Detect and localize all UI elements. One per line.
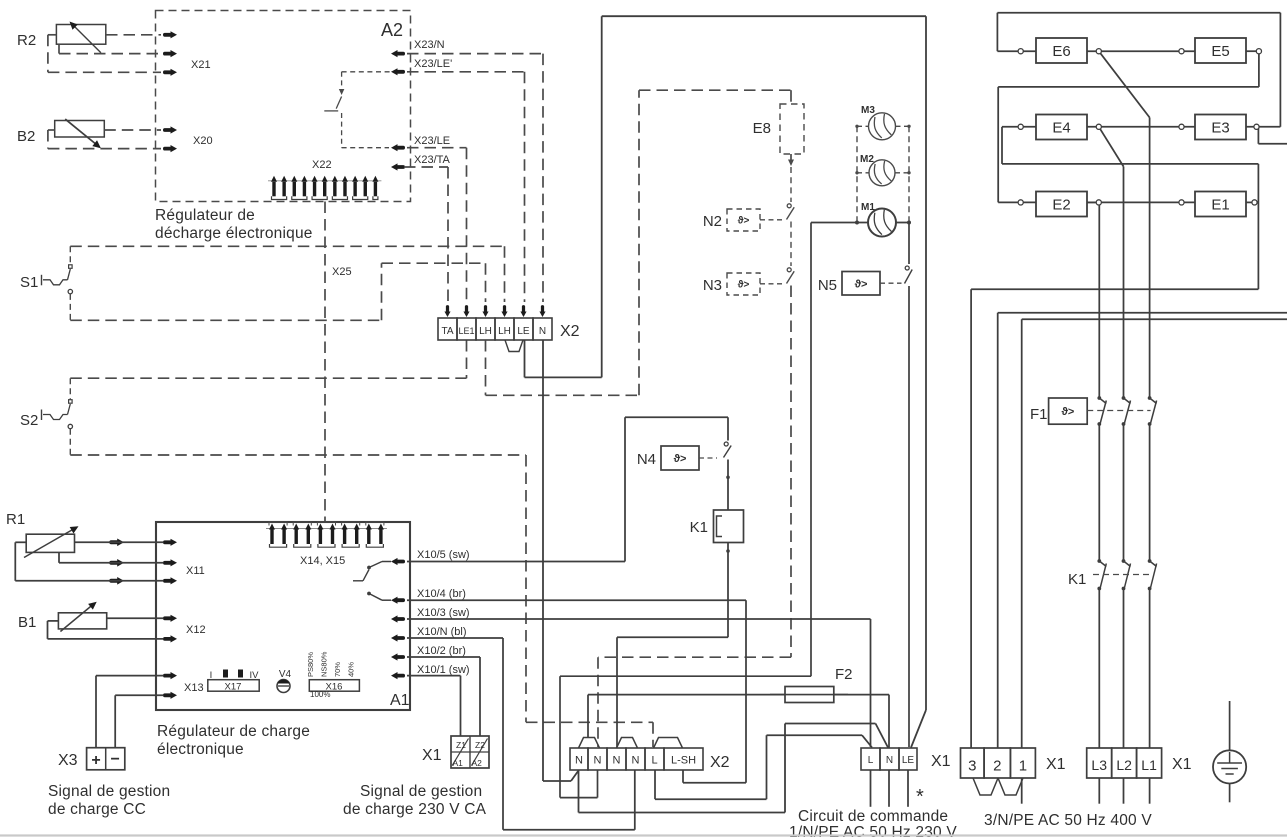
svg-text:X23/TA: X23/TA bbox=[414, 154, 451, 166]
svg-text:IV: IV bbox=[250, 670, 260, 681]
svg-text:N: N bbox=[539, 326, 546, 337]
svg-text:LH: LH bbox=[498, 326, 511, 337]
svg-text:X13: X13 bbox=[184, 682, 204, 694]
svg-text:F1: F1 bbox=[1030, 406, 1048, 423]
svg-text:de charge CC: de charge CC bbox=[48, 801, 146, 818]
svg-text:A1: A1 bbox=[453, 758, 464, 768]
svg-text:X1: X1 bbox=[422, 747, 442, 764]
svg-text:L: L bbox=[651, 755, 657, 767]
svg-text:X1: X1 bbox=[931, 753, 951, 770]
svg-text:3: 3 bbox=[968, 758, 976, 775]
svg-text:L: L bbox=[868, 755, 874, 766]
svg-text:X10/2 (br): X10/2 (br) bbox=[417, 645, 466, 657]
svg-text:X25: X25 bbox=[332, 266, 352, 278]
svg-text:70%: 70% bbox=[333, 662, 342, 677]
svg-text:N: N bbox=[575, 755, 583, 767]
svg-text:L3: L3 bbox=[1091, 757, 1107, 773]
svg-text:X11: X11 bbox=[186, 565, 205, 577]
svg-text:X10/N (bl): X10/N (bl) bbox=[417, 626, 467, 638]
svg-text:K1: K1 bbox=[690, 519, 708, 536]
svg-text:M2: M2 bbox=[860, 154, 874, 165]
svg-text:I: I bbox=[210, 670, 213, 681]
svg-text:LH: LH bbox=[479, 326, 492, 337]
svg-text:N2: N2 bbox=[703, 213, 722, 230]
svg-text:L-SH: L-SH bbox=[671, 755, 696, 767]
svg-text:Régulateur de charge: Régulateur de charge bbox=[157, 723, 310, 740]
svg-text:N: N bbox=[632, 755, 640, 767]
svg-text:R1: R1 bbox=[6, 511, 25, 528]
svg-text:N: N bbox=[886, 755, 893, 766]
svg-text:Z1: Z1 bbox=[456, 740, 466, 750]
svg-text:ϑ>: ϑ> bbox=[738, 216, 750, 227]
svg-text:E6: E6 bbox=[1052, 43, 1070, 60]
svg-text:ϑ>: ϑ> bbox=[1061, 406, 1074, 418]
svg-text:ϑ>: ϑ> bbox=[738, 280, 750, 291]
svg-text:X10/4 (br): X10/4 (br) bbox=[417, 588, 466, 600]
svg-text:A2: A2 bbox=[472, 758, 483, 768]
svg-text:X17: X17 bbox=[225, 682, 242, 693]
svg-text:Signal de gestion: Signal de gestion bbox=[48, 783, 170, 800]
svg-text:X10/5 (sw): X10/5 (sw) bbox=[417, 549, 470, 561]
svg-text:N4: N4 bbox=[637, 451, 656, 468]
svg-text:V4: V4 bbox=[279, 669, 292, 680]
svg-text:1: 1 bbox=[1019, 758, 1027, 775]
svg-text:X23/LE: X23/LE bbox=[414, 135, 450, 147]
svg-text:40%: 40% bbox=[347, 662, 356, 677]
svg-text:X21: X21 bbox=[191, 59, 211, 71]
svg-text:2: 2 bbox=[993, 758, 1001, 775]
svg-text:X3: X3 bbox=[58, 752, 78, 769]
svg-text:X23/N: X23/N bbox=[414, 39, 445, 51]
svg-text:NS80%: NS80% bbox=[320, 651, 329, 677]
svg-text:E3: E3 bbox=[1211, 119, 1229, 136]
svg-text:X20: X20 bbox=[193, 135, 213, 147]
svg-text:X22: X22 bbox=[312, 159, 332, 171]
svg-text:Signal de gestion: Signal de gestion bbox=[360, 783, 482, 800]
svg-text:X2: X2 bbox=[560, 323, 580, 340]
svg-text:E8: E8 bbox=[753, 120, 771, 137]
svg-text:N3: N3 bbox=[703, 277, 722, 294]
svg-text:X14, X15: X14, X15 bbox=[300, 555, 345, 567]
svg-text:E5: E5 bbox=[1211, 43, 1229, 60]
svg-text:électronique: électronique bbox=[157, 741, 244, 758]
svg-text:N: N bbox=[613, 755, 621, 767]
svg-text:L2: L2 bbox=[1116, 757, 1132, 773]
svg-text:X10/3 (sw): X10/3 (sw) bbox=[417, 607, 470, 619]
svg-text:LE: LE bbox=[517, 326, 530, 337]
svg-text:N: N bbox=[594, 755, 602, 767]
svg-text:X1: X1 bbox=[1046, 756, 1066, 773]
svg-text:ϑ>: ϑ> bbox=[855, 278, 868, 290]
svg-text:X2: X2 bbox=[710, 754, 730, 771]
svg-text:S2: S2 bbox=[20, 412, 38, 429]
svg-text:E2: E2 bbox=[1052, 196, 1070, 213]
svg-text:E4: E4 bbox=[1052, 119, 1070, 136]
svg-text:ϑ>: ϑ> bbox=[674, 453, 687, 465]
svg-text:LE1: LE1 bbox=[458, 326, 474, 336]
svg-text:TA: TA bbox=[441, 326, 453, 337]
svg-text:PS80%: PS80% bbox=[306, 652, 315, 677]
svg-text:L1: L1 bbox=[1141, 757, 1157, 773]
svg-text:N5: N5 bbox=[818, 277, 837, 294]
svg-text:S1: S1 bbox=[20, 274, 38, 291]
svg-text:*: * bbox=[916, 786, 924, 808]
svg-text:B2: B2 bbox=[17, 128, 35, 145]
svg-text:+: + bbox=[91, 752, 100, 769]
svg-text:décharge électronique: décharge électronique bbox=[155, 225, 313, 242]
svg-text:Circuit de commande: Circuit de commande bbox=[798, 808, 948, 825]
svg-text:LE: LE bbox=[902, 755, 915, 766]
svg-text:3/N/PE AC 50 Hz 400 V: 3/N/PE AC 50 Hz 400 V bbox=[984, 812, 1152, 829]
svg-text:M3: M3 bbox=[861, 105, 875, 116]
svg-text:M1: M1 bbox=[861, 202, 875, 213]
svg-text:A2: A2 bbox=[381, 20, 403, 40]
svg-text:A1: A1 bbox=[390, 692, 410, 709]
svg-text:X10/1 (sw): X10/1 (sw) bbox=[417, 664, 470, 676]
svg-text:−: − bbox=[111, 751, 120, 768]
svg-text:X12: X12 bbox=[186, 624, 206, 636]
svg-text:R2: R2 bbox=[17, 32, 36, 49]
svg-text:100%: 100% bbox=[310, 690, 330, 699]
svg-text:de charge 230 V CA: de charge 230 V CA bbox=[343, 801, 487, 818]
svg-text:B1: B1 bbox=[18, 614, 36, 631]
svg-text:K1: K1 bbox=[1068, 571, 1086, 588]
svg-text:E1: E1 bbox=[1211, 196, 1229, 213]
svg-text:Z2: Z2 bbox=[475, 740, 485, 750]
svg-text:F2: F2 bbox=[835, 666, 853, 683]
svg-text:Régulateur de: Régulateur de bbox=[155, 207, 255, 224]
svg-text:X1: X1 bbox=[1172, 756, 1192, 773]
svg-text:X23/LE': X23/LE' bbox=[414, 58, 452, 70]
